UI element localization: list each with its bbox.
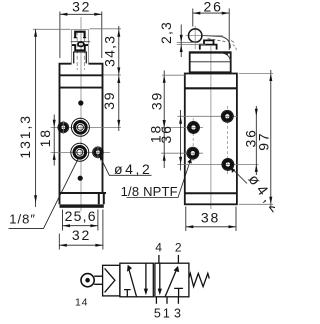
leader dia 4,2 side — [231, 168, 247, 184]
body section line B — [60, 87, 103, 89]
roller slot lines — [71, 41, 90, 43]
arrow left box vertical tip — [144, 289, 148, 296]
dim 97 line — [270, 70, 272, 208]
dim 34,3/39 line — [118, 26, 120, 131]
valve body side view — [185, 74, 237, 205]
svg-text:39: 39 — [101, 91, 117, 110]
arrow leader dia42 front — [100, 156, 104, 161]
plunger chevron — [105, 268, 115, 292]
left box flow 1-4 diagonal — [128, 268, 136, 297]
right box flow 1-2 diagonal — [165, 269, 177, 297]
port row1 centerline — [51, 126, 122, 128]
svg-text:3: 3 — [174, 306, 181, 320]
head cap side view — [190, 52, 231, 73]
svg-text:5: 5 — [154, 306, 161, 320]
arrow right box diagonal tip — [174, 266, 180, 272]
svg-text:2,3: 2,3 — [158, 21, 174, 44]
svg-text:1/8″: 1/8″ — [9, 212, 36, 227]
port centerline left col — [161, 127, 203, 129]
roller stem — [94, 276, 102, 284]
front view dimension arrows — [34, 13, 192, 247]
plunger column outline — [72, 30, 89, 64]
svg-text:131,3: 131,3 — [17, 114, 33, 159]
port ring L2 — [189, 149, 197, 157]
svg-text:32: 32 — [72, 227, 91, 243]
dim 18 front line — [53, 115, 55, 166]
arrows 97 — [269, 74, 272, 82]
arrow left box diagonal tip — [127, 265, 132, 272]
svg-text:38: 38 — [201, 209, 220, 225]
roller (front) — [78, 42, 84, 46]
lever phantom dashes — [233, 45, 237, 51]
base flange front view — [59, 193, 106, 204]
port stub 5 — [155, 297, 157, 304]
arrows 34,3 — [117, 29, 120, 37]
leader dia 4,2 front — [100, 156, 152, 176]
schematic arrowheads — [127, 265, 179, 296]
base line side — [185, 192, 237, 194]
dim 38 line — [186, 226, 236, 228]
dim 26 line — [193, 12, 229, 14]
dim 26 extension lines — [192, 9, 194, 27]
screw dot lower — [78, 176, 83, 181]
arrows 2,3 — [180, 35, 183, 43]
arrow leader dia42 side — [231, 168, 235, 173]
port ring L1 — [190, 124, 198, 132]
centerline side view — [210, 46, 212, 209]
ext 39 top — [162, 74, 185, 76]
roller actuator circle — [81, 274, 94, 287]
port circle row2 — [71, 143, 89, 161]
ext 97 — [239, 73, 273, 75]
base bottom bar — [60, 204, 104, 207]
port stub 2 — [177, 255, 179, 263]
bolt ring row2 right — [95, 149, 102, 156]
svg-text:4: 4 — [155, 241, 162, 255]
dim 2,3 extensions — [177, 41, 197, 43]
port ring R2 — [224, 161, 232, 169]
left box T blocked port — [124, 290, 131, 297]
valve box right — [155, 263, 189, 297]
side view texts — [148, 0, 287, 225]
dim 36 left line — [180, 110, 182, 171]
svg-text:32: 32 — [72, 0, 91, 14]
leader 1/8 NPTF — [127, 159, 192, 198]
dashed axis left col — [192, 118, 194, 162]
dim 32 top line — [60, 13, 102, 15]
port circle row1 — [71, 118, 89, 136]
dim 25,6 line — [63, 225, 98, 227]
valve box left — [120, 263, 153, 297]
arrows 26 — [193, 12, 201, 15]
roller bracket U — [72, 45, 88, 50]
screw dot upper — [78, 100, 83, 105]
dim 2,3 line — [180, 25, 182, 58]
roller bracket top inverted U — [75, 32, 84, 38]
svg-text:97: 97 — [256, 132, 272, 151]
arrow right box vertical tip — [158, 289, 162, 296]
arrows 25,6 — [63, 224, 71, 227]
port ring R1 — [223, 112, 231, 120]
left box flow 2-3 vertical — [145, 263, 147, 290]
leader 1/8 inch — [9, 158, 79, 229]
plunger cap side view — [204, 40, 214, 44]
side view dimension arrows — [163, 12, 273, 229]
dim 32 bottom line — [59, 244, 103, 246]
plunger step collar — [74, 52, 87, 64]
svg-text:ø4,2: ø4,2 — [114, 161, 152, 177]
right box flow 4-5 vertical — [159, 263, 161, 290]
port stub 3 — [177, 297, 179, 304]
roller dot — [85, 278, 90, 283]
arrow leader NPTF — [187, 159, 192, 164]
valve body front view — [60, 64, 103, 205]
dim 38 extensions — [185, 207, 187, 232]
centerline front view — [80, 17, 82, 211]
plunger dashed guide lines — [76, 31, 78, 70]
arrows 36 left — [179, 116, 182, 124]
arrows 36 right — [255, 109, 258, 117]
arrows 18 side — [163, 120, 166, 128]
lever arm — [203, 36, 222, 37]
svg-text:25,6: 25,6 — [65, 208, 97, 224]
dim 131,3 line — [35, 29, 37, 207]
dim 32 top extension lines — [59, 12, 61, 59]
arrows 39 front — [117, 76, 120, 84]
roller crosshair — [186, 35, 224, 37]
plunger box — [103, 265, 120, 296]
svg-text:26: 26 — [204, 0, 223, 15]
port stub 1 — [166, 297, 168, 304]
dim 39/18 side line — [163, 71, 165, 169]
dim 131,3 extension top — [33, 28, 71, 30]
port centerline right col bottom — [178, 163, 259, 165]
dim 25,6 extension lines — [62, 210, 64, 231]
port row2 centerline — [51, 151, 111, 153]
pivot arc detail — [222, 53, 231, 61]
svg-text:36: 36 — [158, 124, 174, 143]
svg-text:1: 1 — [163, 306, 170, 320]
svg-text:2: 2 — [175, 241, 182, 255]
front view texts — [9, 0, 178, 243]
arrows 32 top — [60, 13, 68, 16]
arrows 39 side — [163, 75, 166, 83]
svg-text:34,3: 34,3 — [101, 35, 117, 67]
svg-text:1/8 NPTF: 1/8 NPTF — [121, 184, 178, 199]
schematic texts — [75, 241, 182, 321]
arrows 38 — [186, 225, 194, 228]
arrows 131,3 — [34, 29, 37, 37]
dim 32 bottom extension lines — [58, 234, 60, 250]
svg-text:18: 18 — [37, 128, 53, 147]
arrows 18 front (outside pointing in) — [53, 120, 56, 128]
dim 34,3/39 extension lines right — [90, 28, 122, 30]
arrows 32 bottom — [59, 244, 67, 247]
body section line A — [60, 74, 103, 76]
svg-text:39: 39 — [148, 91, 164, 110]
roller side view — [189, 29, 202, 42]
port stub 4 — [158, 255, 160, 263]
right box T blocked port — [174, 288, 183, 296]
lever hook — [222, 37, 231, 49]
dashed axis right col — [227, 106, 229, 174]
port centerline right col top — [178, 115, 238, 117]
return spring — [189, 273, 209, 286]
svg-text:14: 14 — [75, 296, 88, 308]
body top band side — [185, 87, 237, 89]
dim 36 right line — [255, 106, 257, 175]
bolt ring row1 left — [60, 124, 67, 131]
